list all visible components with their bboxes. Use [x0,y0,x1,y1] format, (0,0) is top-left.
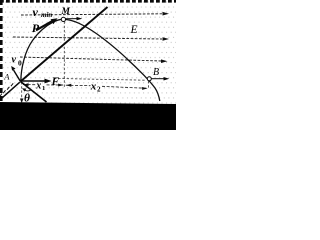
top dashed border [0,0,176,3]
field line E1 (dashed, arrow right) [21,12,169,16]
dashed level line from F tip to B [54,78,146,80]
svg-text:M: M [61,7,71,17]
field line E3 (dashed, arrow right) [20,57,168,63]
svg-text:E: E [130,24,138,36]
svg-text:v: v [33,5,39,19]
wall line down-left from A [1,82,20,99]
M point circle [61,17,65,21]
small down arrow at bottom of A vertical [20,99,24,104]
vertical dashed below M [63,22,65,89]
wall hatching [0,83,13,96]
theta arc with arrow [24,90,31,91]
M arrow (right from circle) [66,17,83,21]
svg-text:B: B [153,67,159,78]
svg-text:x: x [35,81,41,92]
svg-text:A: A [3,72,10,82]
svg-text:min: min [41,11,52,19]
x2 dimension [66,84,148,90]
vertical dashed below B [148,81,150,89]
F arrow (bold, right from A) [21,79,52,84]
v_min arrow (bold, from P up-right toward M) [36,18,58,30]
svg-text:2: 2 [97,86,101,94]
svg-text:v: v [12,55,17,66]
left dashed border [0,0,3,103]
thick line from A down-right (effective gravity direction) [21,82,47,103]
x1 dimension [23,83,64,86]
long thick diagonal from A to upper right [21,7,108,82]
svg-text:0: 0 [18,59,22,68]
svg-text:1: 1 [42,85,45,92]
B point circle [147,77,151,81]
vertical dashed below A [21,82,23,101]
field line E2 (dashed, arrow right) [13,37,169,41]
v0 arrow (up-left from A) [11,66,20,82]
svg-text:F: F [51,76,60,88]
B arrow (right from circle) [152,77,170,81]
bottom black band [0,102,176,130]
svg-text:x: x [90,81,97,93]
svg-text:P: P [32,21,40,35]
trajectory parabola [21,19,160,101]
